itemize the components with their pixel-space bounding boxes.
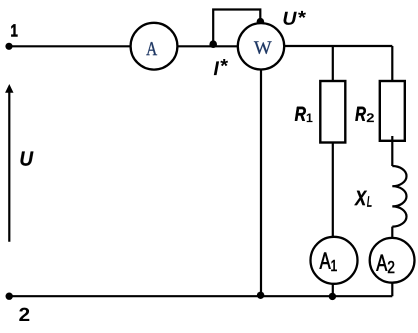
ammeter A1 [311, 237, 358, 284]
wattmeter W [238, 23, 284, 69]
junction: W coil on bottom rail [257, 292, 264, 299]
label U [20, 151, 33, 165]
resistor R1 [320, 81, 345, 143]
ammeter A [131, 23, 178, 70]
label 1 [11, 24, 17, 36]
bottom rail [9, 295, 392, 297]
label XL [354, 191, 367, 205]
label I* [214, 61, 219, 75]
wire: R1 to A1 [332, 143, 334, 238]
wire: drop to R1 [332, 46, 334, 81]
terminal 1 [5, 43, 12, 50]
wire: drop to R2 [391, 46, 393, 81]
label R1 [295, 107, 306, 121]
wire: A to W [177, 45, 238, 47]
label U* [283, 12, 296, 25]
wire: A1 to bottom rail [332, 283, 334, 296]
wire: XL to A2 [391, 227, 393, 239]
junction: A1 on bottom rail [329, 293, 336, 300]
node U* dot [257, 18, 265, 26]
wire: W voltage coil to bottom rail [260, 69, 262, 296]
wire: R2 to XL [391, 136, 393, 166]
wire: W to right branches [285, 45, 393, 47]
wire: wattmeter current-coil loop [213, 10, 260, 46]
terminal 2 [6, 293, 13, 300]
resistor R2 [380, 81, 405, 141]
wire: A2 to bottom rail [391, 282, 393, 296]
voltage arrow U [5, 84, 13, 242]
inductor XL [392, 166, 406, 227]
wire: top rail from terminal 1 to ammeter A [9, 45, 131, 47]
ammeter A2 [370, 238, 415, 283]
node I* junction [209, 40, 217, 48]
label 2 [19, 308, 29, 321]
label R2 [355, 107, 365, 121]
